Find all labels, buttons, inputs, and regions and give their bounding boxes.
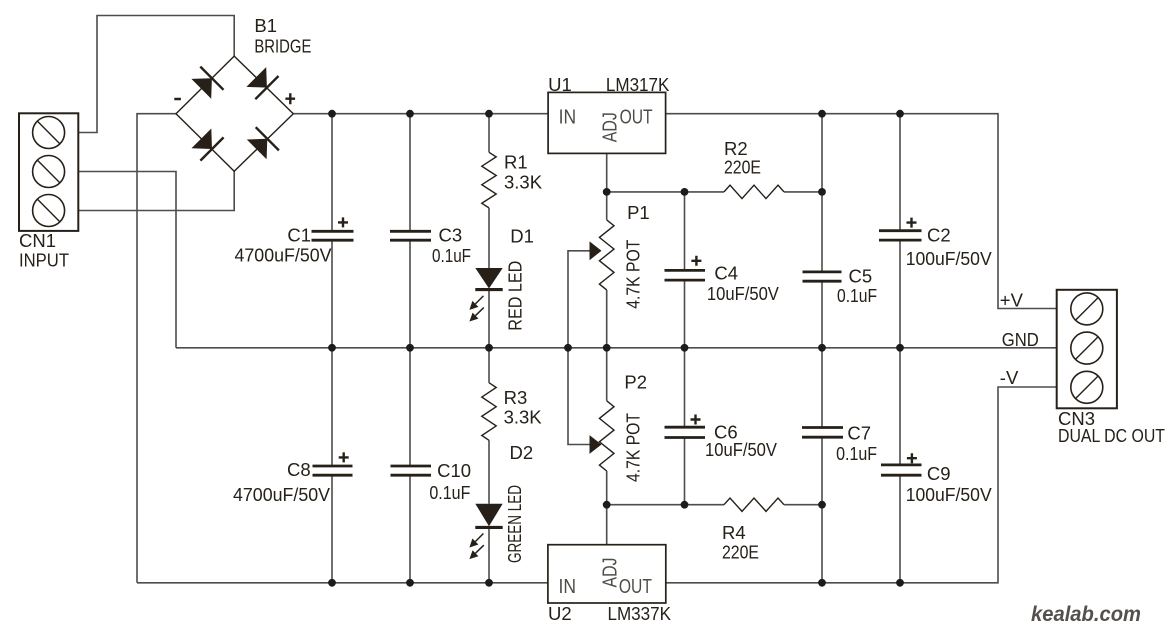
svg-text:4700uF/50V: 4700uF/50V bbox=[233, 484, 331, 505]
svg-text:220E: 220E bbox=[724, 157, 761, 178]
svg-text:U2: U2 bbox=[548, 603, 572, 624]
svg-text:4.7K POT: 4.7K POT bbox=[623, 240, 644, 309]
svg-text:0.1uF: 0.1uF bbox=[429, 482, 470, 503]
svg-text:D1: D1 bbox=[510, 226, 534, 247]
svg-text:4.7K POT: 4.7K POT bbox=[623, 413, 644, 482]
svg-text:R4: R4 bbox=[722, 522, 746, 543]
svg-text:0.1uF: 0.1uF bbox=[432, 245, 471, 266]
svg-text:C10: C10 bbox=[437, 460, 471, 481]
svg-text:10uF/50V: 10uF/50V bbox=[707, 283, 780, 304]
svg-text:C2: C2 bbox=[927, 224, 951, 245]
svg-text:100uF/50V: 100uF/50V bbox=[906, 248, 993, 269]
svg-text:+V: +V bbox=[1000, 290, 1024, 311]
svg-text:LM317K: LM317K bbox=[606, 74, 670, 95]
svg-text:C7: C7 bbox=[847, 423, 871, 444]
svg-text:3.3K: 3.3K bbox=[504, 407, 543, 428]
svg-text:C8: C8 bbox=[287, 459, 311, 480]
svg-text:IN: IN bbox=[559, 106, 577, 129]
svg-text:OUT: OUT bbox=[619, 575, 652, 598]
svg-text:BRIDGE: BRIDGE bbox=[254, 35, 311, 56]
svg-text:0.1uF: 0.1uF bbox=[836, 443, 877, 464]
svg-text:100uF/50V: 100uF/50V bbox=[906, 484, 993, 505]
svg-text:GND: GND bbox=[1002, 329, 1039, 350]
svg-text:220E: 220E bbox=[722, 542, 759, 563]
svg-text:0.1uF: 0.1uF bbox=[837, 285, 877, 306]
svg-text:IN: IN bbox=[559, 575, 577, 598]
svg-text:CN1: CN1 bbox=[19, 230, 56, 251]
svg-text:C5: C5 bbox=[849, 266, 873, 287]
svg-text:OUT: OUT bbox=[620, 106, 653, 129]
svg-text:P1: P1 bbox=[627, 202, 650, 223]
svg-text:DUAL DC OUT: DUAL DC OUT bbox=[1058, 425, 1165, 446]
svg-text:C4: C4 bbox=[714, 263, 738, 284]
svg-text:U1: U1 bbox=[548, 74, 572, 95]
svg-text:C9: C9 bbox=[927, 463, 951, 484]
svg-text:GREEN LED: GREEN LED bbox=[504, 485, 525, 563]
svg-text:ADJ: ADJ bbox=[599, 112, 622, 142]
svg-text:R3: R3 bbox=[504, 387, 528, 408]
svg-text:3.3K: 3.3K bbox=[504, 172, 543, 193]
svg-text:RED LED: RED LED bbox=[505, 261, 526, 331]
svg-text:10uF/50V: 10uF/50V bbox=[705, 439, 778, 460]
svg-text:kealab.com: kealab.com bbox=[1031, 603, 1141, 626]
svg-text:C3: C3 bbox=[439, 225, 463, 246]
svg-text:-V: -V bbox=[1000, 367, 1019, 388]
svg-text:4700uF/50V: 4700uF/50V bbox=[235, 245, 333, 266]
svg-text:D2: D2 bbox=[510, 442, 534, 463]
svg-text:R1: R1 bbox=[504, 152, 528, 173]
svg-text:INPUT: INPUT bbox=[19, 250, 69, 271]
svg-text:P2: P2 bbox=[624, 372, 647, 393]
svg-text:ADJ: ADJ bbox=[599, 558, 622, 588]
svg-text:LM337K: LM337K bbox=[608, 603, 672, 624]
svg-text:C1: C1 bbox=[287, 225, 311, 246]
svg-text:B1: B1 bbox=[254, 15, 277, 36]
